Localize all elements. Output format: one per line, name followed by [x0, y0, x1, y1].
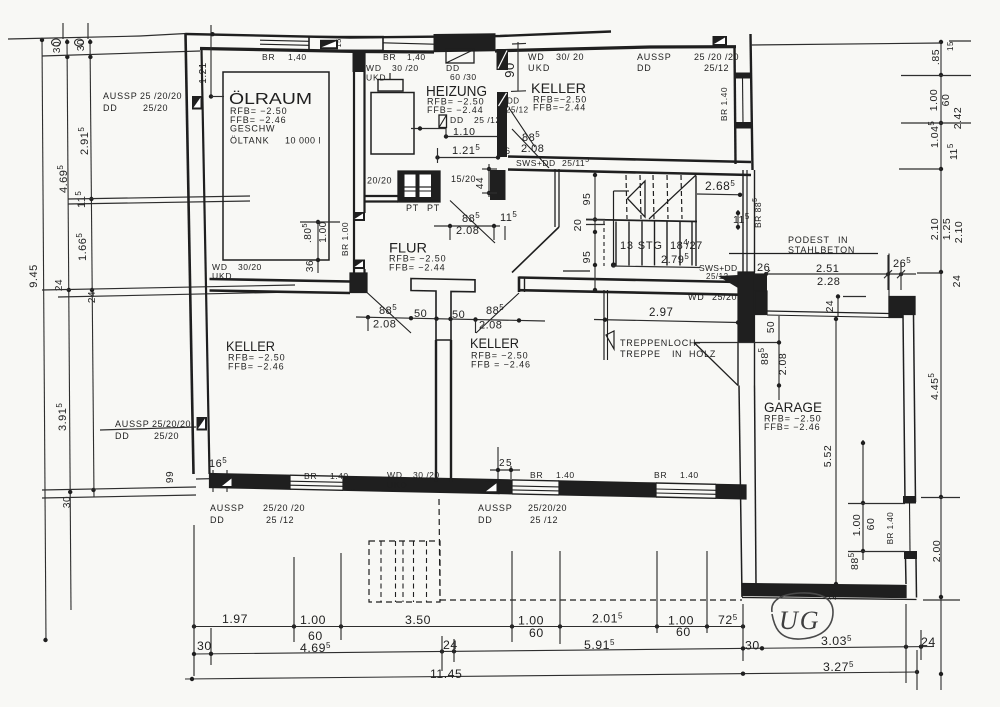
- svg-text:24: 24: [921, 635, 936, 649]
- svg-text:1.21: 1.21: [198, 62, 209, 83]
- svg-text:95: 95: [581, 193, 593, 206]
- house/garage left wall below door: [739, 386, 756, 598]
- svg-text:25/12: 25/12: [706, 272, 729, 281]
- garage top-left corner block: [755, 291, 768, 315]
- room label GARAGE: [764, 399, 822, 432]
- chimney block PT PT: [398, 171, 440, 202]
- svg-text:25/20: 25/20: [143, 103, 168, 113]
- right dimension chain line: [939, 40, 943, 690]
- garage right wall lower segment: [906, 559, 917, 598]
- dim chain 95 20 95 left of stairs: [572, 172, 605, 292]
- top wall black segment over HEIZUNG: [434, 34, 495, 52]
- svg-text:PODEST: PODEST: [788, 235, 830, 245]
- garage right wall window BR 1.40: [903, 496, 917, 559]
- svg-text:2.42: 2.42: [952, 107, 964, 129]
- svg-text:1.40: 1.40: [330, 471, 349, 481]
- svg-text:6: 6: [505, 146, 511, 156]
- dashed vertical projection line from keller wall: [439, 499, 440, 601]
- room label KELLER bottom-middle: [470, 335, 531, 370]
- svg-text:1.97: 1.97: [222, 612, 248, 626]
- label WD 25/20 keller2: [688, 292, 737, 302]
- boiler in heizung: [371, 73, 414, 154]
- dim 26 / 2.51 / 2.28 / 26-5 podest: [752, 255, 916, 290]
- keller TR left wall with door 90: [497, 42, 536, 157]
- keller1 top wall (oelraum bottom wall): [210, 279, 351, 293]
- SWS wall step block: [755, 274, 768, 291]
- label AUSSP below bottom wall right: [478, 503, 567, 525]
- labels PT PT: [406, 203, 440, 213]
- svg-text:25/20/20: 25/20/20: [528, 503, 567, 513]
- label GESCHW OELTANK: [230, 124, 321, 146]
- svg-text:2.08: 2.08: [373, 319, 396, 331]
- podest edge line: [729, 253, 878, 255]
- right dim labels: [927, 41, 965, 562]
- svg-text:20: 20: [572, 219, 584, 232]
- svg-text:.85: .85: [930, 49, 942, 65]
- svg-text:UG: UG: [779, 606, 821, 635]
- treppenloch triangle marker: [606, 331, 614, 349]
- oil tank rectangle: [223, 72, 329, 260]
- svg-text:DD: DD: [103, 103, 118, 113]
- svg-text:24: 24: [828, 588, 839, 600]
- label PODEST IN STAHLBETON: [788, 235, 855, 255]
- small landing edge below angled wall: [563, 270, 590, 272]
- label AUSSP below bottom wall left: [210, 503, 305, 525]
- svg-text:99: 99: [165, 471, 176, 483]
- stair upper flight dashed treads: [626, 175, 682, 219]
- svg-text:11.45: 11.45: [430, 667, 462, 681]
- treppenloch edge lines: [604, 290, 608, 360]
- left wall jamb marker upper (AUSSP): [192, 96, 203, 110]
- svg-text:25/20: 25/20: [712, 292, 737, 302]
- bottom exterior wall: [210, 474, 747, 500]
- svg-text:25 /12: 25 /12: [266, 515, 294, 525]
- stair dashed rail line: [603, 221, 605, 266]
- svg-text:2: 2: [499, 458, 505, 469]
- svg-text:AUSSP: AUSSP: [210, 503, 245, 513]
- svg-text:60: 60: [676, 625, 691, 639]
- svg-text:25 /12: 25 /12: [530, 515, 558, 525]
- label WD 30/20 UKD keller TR: [528, 52, 584, 73]
- marker DD 25/12 heizung: [439, 115, 501, 128]
- dashed horizontal projection line to garage: [440, 599, 742, 601]
- svg-text:30/ 20: 30/ 20: [556, 52, 584, 62]
- stair lower flight treads: [616, 222, 692, 266]
- svg-text:24: 24: [825, 300, 836, 312]
- svg-text:BR 885: BR 885: [752, 197, 763, 228]
- svg-text:1.00: 1.00: [318, 221, 329, 242]
- room label FLUR: [389, 240, 447, 273]
- svg-text:BR: BR: [530, 470, 543, 480]
- svg-text:24: 24: [443, 638, 458, 652]
- label DD 25/12 keller TR: [506, 97, 529, 115]
- svg-text:95: 95: [581, 251, 593, 264]
- label BR 1.40 + WD 30/20 UKD heizung window: [366, 52, 426, 83]
- svg-text:STAHLBETON: STAHLBETON: [788, 245, 855, 255]
- svg-text:30: 30: [52, 41, 63, 53]
- label AUSSP top-left: [103, 91, 182, 113]
- svg-text:24: 24: [87, 291, 98, 303]
- flur top door swing: [450, 201, 495, 244]
- left margin top extension lines and circles: [8, 23, 200, 56]
- svg-text:UKD: UKD: [366, 73, 386, 83]
- dim 1.00 60 garage window: [847, 440, 905, 570]
- flur right boundary thin wall: [555, 169, 559, 227]
- svg-text:30: 30: [745, 639, 760, 653]
- left wall jamb marker lower (AUSSP): [197, 417, 208, 431]
- svg-text:BR: BR: [654, 470, 667, 480]
- svg-text:FFB= −2.46: FFB= −2.46: [228, 362, 285, 372]
- left exterior wall inner line: [202, 49, 210, 475]
- svg-text:60: 60: [865, 518, 877, 531]
- left margin extension lines bottom (30 dim): [42, 487, 196, 498]
- svg-text:GESCHW: GESCHW: [230, 124, 275, 134]
- keller TR bottom wall: [508, 157, 751, 176]
- svg-text:AUSSP: AUSSP: [103, 91, 138, 101]
- right dim extension lines: [751, 41, 971, 600]
- svg-text:2.10: 2.10: [953, 221, 965, 243]
- svg-text:2.08: 2.08: [521, 143, 544, 155]
- house right wall at stair (door BR 88 to podest): [743, 170, 755, 272]
- svg-text:FFB= −2.44: FFB= −2.44: [427, 105, 484, 115]
- dim 88.5 2.08 garage door: [757, 340, 789, 400]
- garage top wall thin lines: [767, 311, 889, 318]
- dim 2.68-5 stairs top: [697, 179, 742, 197]
- svg-text:WD: WD: [528, 52, 545, 62]
- svg-text:SWS+DD: SWS+DD: [516, 158, 556, 168]
- svg-text:30: 30: [197, 639, 212, 653]
- svg-text:FFB= −2.44: FFB= −2.44: [389, 263, 446, 273]
- pillar 15/20 and wall at stair head: [490, 170, 506, 200]
- svg-text:90: 90: [502, 62, 517, 77]
- label SWS+DD 25/11-5 keller TR: [516, 157, 590, 168]
- chimney vent symbol DD 60/30: [446, 50, 477, 83]
- keller TR right wall with window BR 1.40: [735, 34, 753, 170]
- svg-text:25 /20/20: 25 /20/20: [140, 91, 182, 101]
- svg-text:1.40: 1.40: [556, 470, 575, 480]
- label TREPPENLOCH TREPPE IN HOLZ: [620, 338, 716, 359]
- svg-text:WD: WD: [366, 63, 382, 73]
- keller TR door swing bottom left: [512, 129, 549, 168]
- label AUSSP 25/20/20 DD 25/12 keller TR: [637, 52, 739, 73]
- svg-text:15/20: 15/20: [451, 174, 476, 184]
- keller2 door swing: [476, 293, 519, 333]
- bottom dim row 1 labels: [222, 612, 738, 644]
- left dimension chain line 1 (overall 9.45): [28, 38, 48, 642]
- svg-text:FFB = −2.46: FFB = −2.46: [471, 360, 531, 370]
- svg-text:PT: PT: [427, 203, 440, 213]
- svg-text:15: 15: [334, 38, 343, 47]
- label BR 1.40 bottom wall window 1: [304, 471, 349, 481]
- svg-text:60 /30: 60 /30: [450, 72, 477, 82]
- stair break line diagonal: [649, 174, 697, 219]
- room label OELRAUM: [229, 90, 312, 125]
- svg-text:BR: BR: [304, 471, 317, 481]
- svg-text:2.08: 2.08: [479, 320, 502, 332]
- top exterior wall inner heavy line: [200, 47, 736, 52]
- dim 11-5 flur top door: [500, 210, 517, 240]
- left dimension chain line 3: [74, 39, 98, 497]
- dashed exterior stair rectangle: [369, 541, 440, 602]
- label WD 30/20 UKD bottom wall: [387, 470, 440, 490]
- svg-text:25 /20 /20: 25 /20 /20: [694, 52, 739, 62]
- keller1 door swing: [367, 293, 411, 334]
- svg-text:25/20: 25/20: [154, 431, 179, 441]
- svg-text:60: 60: [529, 626, 544, 640]
- top wall window 1 glazing lines: [260, 40, 309, 45]
- svg-text:1.00: 1.00: [300, 613, 326, 627]
- black wedge at keller2 wall right end: [718, 275, 738, 288]
- svg-text:3.50: 3.50: [405, 613, 431, 627]
- left margin extension lines (24 dim): [42, 285, 295, 297]
- svg-text:2.97: 2.97: [649, 307, 673, 319]
- svg-text:DD: DD: [507, 97, 520, 106]
- keller2 top wall: [519, 277, 738, 295]
- dim 16.5 keller1 corner: [196, 456, 240, 492]
- dim 25 bottom wall window jamb: [490, 447, 520, 479]
- svg-text:2.08: 2.08: [456, 225, 479, 237]
- dim 5.52 garage: [822, 317, 839, 600]
- svg-text:AUSSP: AUSSP: [115, 419, 150, 429]
- svg-text:FFB=−2.44: FFB=−2.44: [533, 103, 586, 113]
- svg-text:30 /20: 30 /20: [392, 63, 419, 73]
- svg-text:IN: IN: [672, 349, 682, 359]
- label AUSSP mid-left: [100, 419, 196, 441]
- T-wall slab between doors: [411, 279, 475, 341]
- svg-text:UKD: UKD: [528, 63, 551, 73]
- bottom dim row 3 line: [185, 670, 919, 681]
- svg-text:IN: IN: [838, 235, 848, 245]
- bottom dim row 1 line: [192, 624, 745, 628]
- svg-text:DD: DD: [478, 515, 493, 525]
- svg-text:2.28: 2.28: [817, 276, 840, 288]
- house right wall below stairs (black): [738, 272, 755, 342]
- dim 1.21-5 heizung: [435, 143, 500, 163]
- svg-text:AUSSP: AUSSP: [478, 503, 513, 513]
- bottom dim row 2 labels: [197, 604, 936, 683]
- dim 88-5 2.08 keller TR door: [521, 130, 544, 155]
- left exterior wall outer line: [186, 34, 194, 475]
- garage right wall upper segment: [903, 315, 916, 503]
- room label KELLER bottom-left: [226, 338, 286, 372]
- svg-text:10 000 l: 10 000 l: [285, 136, 321, 146]
- podest right edge vertical line: [888, 254, 890, 312]
- svg-text:UKD: UKD: [387, 480, 407, 490]
- dim 44 at pillar: [475, 164, 497, 197]
- dim 1.10 heizung: [411, 126, 501, 139]
- svg-text:2.00: 2.00: [931, 540, 943, 562]
- dim 88-5 2.08 flur top door: [434, 211, 500, 240]
- svg-text:9.45: 9.45: [28, 264, 40, 287]
- svg-text:BR 1.00: BR 1.00: [340, 222, 350, 256]
- svg-text:/27: /27: [686, 240, 703, 252]
- room label HEIZUNG: [426, 83, 487, 115]
- svg-text:36: 36: [305, 260, 316, 272]
- bottom dim row 1 extension verticals: [194, 525, 743, 676]
- room label KELLER top-right: [531, 80, 587, 113]
- svg-text:1.00: 1.00: [928, 89, 940, 111]
- svg-text:DD: DD: [450, 115, 464, 125]
- svg-text:20/20: 20/20: [367, 176, 392, 186]
- svg-text:AUSSP: AUSSP: [637, 52, 672, 62]
- svg-text:25/20 /20: 25/20 /20: [263, 503, 305, 513]
- dim 50 garage wall step: [766, 316, 779, 341]
- svg-text:1.40: 1.40: [680, 470, 699, 480]
- svg-text:PT: PT: [406, 203, 419, 213]
- svg-text:1.25: 1.25: [941, 218, 953, 240]
- svg-text:2.10: 2.10: [929, 218, 941, 240]
- svg-text:50: 50: [414, 308, 427, 320]
- dim 1.21 oelraum top left: [198, 25, 224, 99]
- garage bottom wall: [742, 584, 917, 600]
- svg-text:BR: BR: [262, 52, 275, 62]
- dim 24 entrance step: [825, 294, 866, 316]
- dim 36 / 80 / 1.00 oelraum bottom right: [300, 220, 340, 273]
- svg-text:WD: WD: [387, 470, 403, 480]
- dim row doors keller1 keller2: [356, 303, 545, 333]
- room OELRAUM walls right side: [350, 51, 367, 293]
- label 13 STG 18 4/27: [620, 237, 703, 252]
- svg-text:BR 1.40: BR 1.40: [719, 87, 729, 121]
- label SWS+DD 25/12 below stairs: [699, 263, 737, 281]
- stair mid landing line: [586, 220, 697, 222]
- svg-text:FFB= −2.46: FFB= −2.46: [764, 422, 821, 432]
- svg-text:1.00: 1.00: [851, 514, 863, 536]
- label BR 1.40 bottom wall window 2: [530, 470, 575, 480]
- svg-text:30/20: 30/20: [238, 262, 262, 272]
- svg-text:DD: DD: [115, 431, 130, 441]
- svg-text:44: 44: [475, 177, 486, 189]
- wall between keller1 and keller2 vertical: [436, 340, 451, 482]
- svg-text:KELLER: KELLER: [470, 335, 519, 351]
- svg-text:25 /12: 25 /12: [474, 115, 501, 125]
- left dimension chain line 2: [52, 39, 73, 610]
- stair flight right edge: [695, 176, 697, 266]
- svg-text:5.52: 5.52: [822, 445, 834, 467]
- svg-text:15: 15: [946, 41, 955, 51]
- svg-text:24: 24: [951, 275, 963, 288]
- svg-text:BR 1.40: BR 1.40: [886, 512, 895, 544]
- wall between oelraum wall and chimney: [365, 196, 399, 202]
- svg-text:60: 60: [940, 94, 952, 107]
- svg-text:ÖLTANK: ÖLTANK: [230, 136, 269, 146]
- top wall black flag marker right: [713, 36, 728, 46]
- svg-text:BR: BR: [383, 52, 396, 62]
- svg-text:1,40: 1,40: [288, 52, 307, 62]
- left margin extension lines mid (11.5 dim): [68, 196, 250, 204]
- handwritten UG circle mark: [772, 593, 833, 639]
- svg-text:TREPPE: TREPPE: [620, 349, 661, 359]
- svg-text:DD: DD: [210, 515, 225, 525]
- angled wall under stairs: [512, 227, 559, 273]
- svg-text:50: 50: [766, 321, 777, 333]
- garage door in left wall with swing: [694, 342, 779, 386]
- bottom dim row 3 labels: [430, 650, 917, 690]
- label BR 1,40 top wall window oelraum: [262, 52, 307, 62]
- top wall window 2 glazing line: [383, 43, 434, 44]
- svg-text:13 STG: 13 STG: [620, 240, 663, 252]
- label BR 1.40 bottom wall window 3: [654, 470, 699, 480]
- dim 2.97 keller2: [594, 307, 740, 325]
- garage top-right corner block: [889, 297, 915, 318]
- svg-text:50: 50: [452, 309, 465, 321]
- svg-text:HOLZ: HOLZ: [689, 349, 716, 359]
- svg-text:2.08: 2.08: [777, 353, 789, 375]
- bottom dim row 2 line: [192, 644, 934, 656]
- svg-text:TREPPENLOCH: TREPPENLOCH: [620, 338, 696, 348]
- stair walk line and arrow: [611, 181, 645, 268]
- svg-text:25/12: 25/12: [704, 63, 729, 73]
- dim 11-5 right of stairs: [733, 210, 750, 230]
- svg-text:25/12: 25/12: [506, 106, 529, 115]
- svg-text:1,40: 1,40: [407, 52, 426, 62]
- label WD 30/20 UKD oelraum bottom: [212, 262, 262, 281]
- svg-text:WD: WD: [688, 292, 705, 302]
- svg-text:DD: DD: [637, 63, 652, 73]
- svg-text:2.51: 2.51: [816, 263, 839, 275]
- dim 2.79-5 stairs: [613, 252, 700, 268]
- top wall marker box with flag and 15: [309, 37, 383, 51]
- top exterior wall outer line: [186, 32, 612, 38]
